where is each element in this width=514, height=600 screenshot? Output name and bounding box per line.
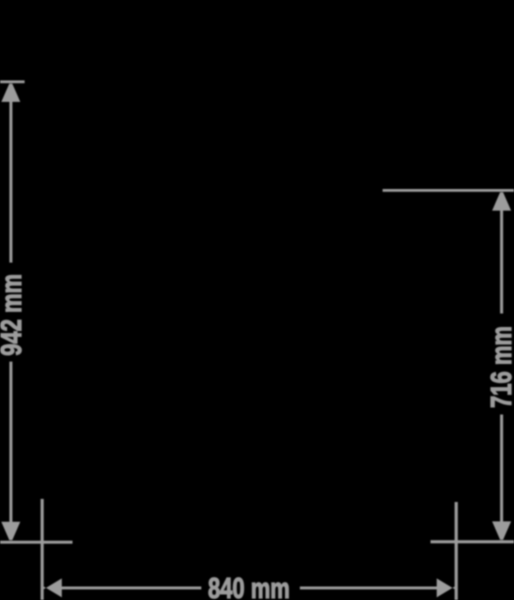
- svg-text:942 mm: 942 mm: [0, 274, 28, 356]
- dimension 716mm: up arrowhead: [492, 192, 511, 210]
- dimension 942mm: lower shaft segment: [9, 362, 12, 523]
- dimension 942mm: upper shaft segment: [9, 101, 12, 263]
- dimension 942mm: down arrowhead: [1, 522, 20, 540]
- dimension 942mm: up arrowhead: [1, 84, 20, 102]
- dimension 716mm: upper shaft segment: [500, 210, 503, 314]
- dimension 840mm: left arrowhead: [44, 578, 62, 597]
- dimension 942mm: top extension line: [0, 80, 25, 83]
- svg-text:716 mm: 716 mm: [486, 326, 514, 408]
- dimension 840mm: right line segment: [300, 587, 437, 590]
- dimension 716mm: lower shaft segment: [500, 415, 503, 523]
- dimension 840mm: right arrowhead: [437, 578, 455, 597]
- dimension 942mm: bottom extension line: [0, 541, 73, 544]
- svg-text:840 mm: 840 mm: [208, 573, 290, 600]
- dimension 840mm: right extension line: [455, 502, 458, 600]
- dimension 716mm: bottom extension line: [431, 540, 514, 543]
- dimension 716mm: top extension line: [383, 189, 514, 192]
- dimension 840mm: left line segment: [61, 587, 202, 590]
- dimension 716mm: down arrowhead: [492, 521, 511, 539]
- dimension 840mm: left extension line: [41, 499, 44, 600]
